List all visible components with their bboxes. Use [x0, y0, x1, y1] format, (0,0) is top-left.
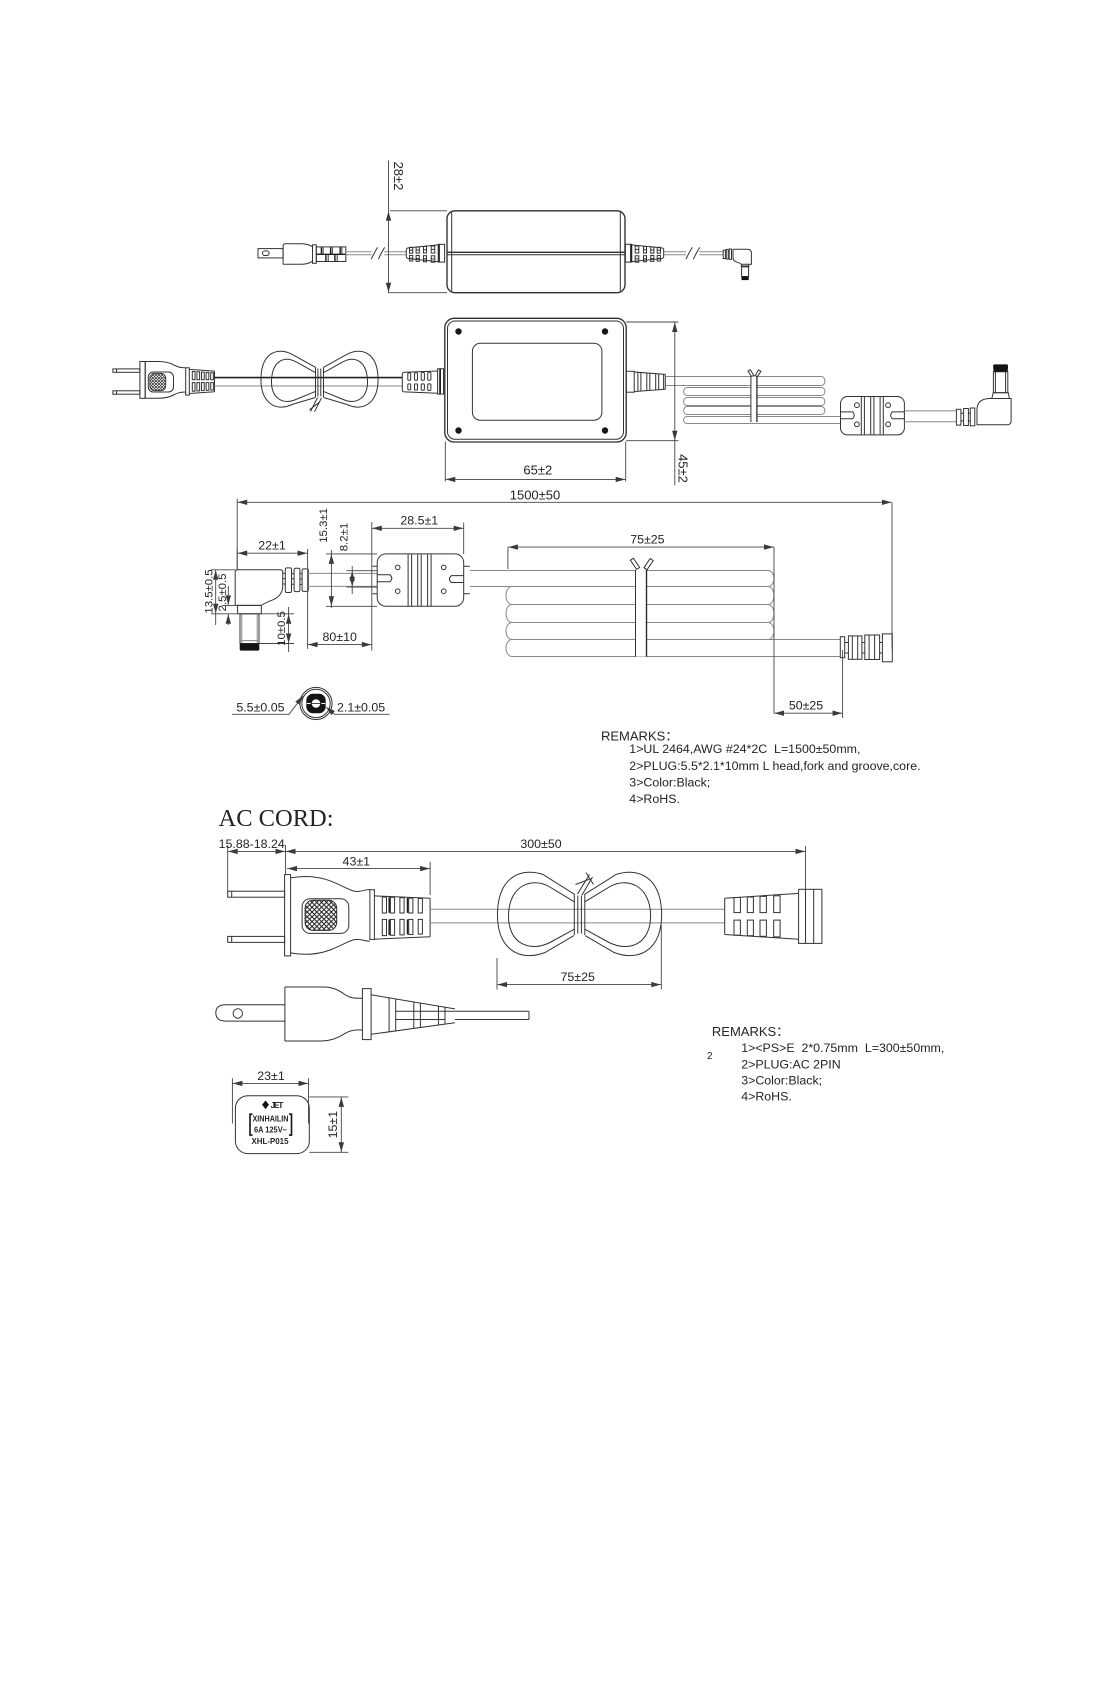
svg-text:50±25: 50±25 [789, 698, 823, 712]
strain relief right of body [626, 371, 665, 392]
ferrite bead detail [373, 554, 470, 606]
dim 80+-10 [308, 522, 372, 651]
svg-text:2.5±0.5: 2.5±0.5 [217, 574, 229, 612]
rating label [235, 1096, 309, 1154]
svg-text:75±25: 75±25 [630, 532, 664, 546]
strain relief into body [402, 369, 443, 394]
svg-text:75±25: 75±25 [561, 970, 595, 984]
svg-text:JET: JET [271, 1100, 285, 1110]
DC plug J1 top view [956, 364, 1011, 425]
LABEL [232, 1069, 348, 1153]
svg-text:15.3±1: 15.3±1 [318, 508, 330, 543]
svg-text:REMARKS：: REMARKS： [712, 1024, 789, 1039]
coil rows [665, 370, 840, 424]
svg-text:80±10: 80±10 [323, 630, 357, 644]
DC plug J1 side view [723, 249, 751, 280]
dim 10+-0.5 [259, 607, 294, 652]
svg-text:XINHAILIN: XINHAILIN [253, 1114, 289, 1124]
dim 23+-1 [232, 1069, 308, 1123]
VIEW3 [203, 488, 892, 718]
svg-text:15.88-18.24: 15.88-18.24 [219, 837, 285, 851]
wire W1b [384, 252, 406, 255]
AC plug P1 side view [258, 244, 346, 265]
AC plug side view below [216, 987, 529, 1041]
coiled bow left [261, 351, 378, 412]
strain relief left [406, 244, 444, 262]
svg-text:1500±50: 1500±50 [510, 488, 561, 503]
DETAIL [232, 687, 390, 719]
wire [215, 377, 403, 379]
ACCORD [216, 805, 822, 1041]
wire W2 [664, 252, 686, 255]
break marks [371, 247, 384, 259]
leader 2.1 [324, 700, 389, 715]
dim 43+-1 [287, 854, 430, 895]
svg-text:10±0.5: 10±0.5 [276, 611, 288, 646]
dim 15.88-18.24 [219, 837, 286, 891]
svg-text:43±1: 43±1 [343, 854, 371, 868]
wire to ferrite [308, 573, 378, 586]
svg-text:AC CORD:: AC CORD: [219, 805, 334, 832]
dim 65+-2 [445, 442, 625, 483]
svg-text:4>RoHS.: 4>RoHS. [629, 792, 680, 806]
svg-text:2>PLUG:AC 2PIN: 2>PLUG:AC 2PIN [741, 1057, 841, 1071]
dim 45+-2 [626, 322, 690, 485]
svg-text:3>Color:Black;: 3>Color:Black; [741, 1073, 822, 1087]
adapter body top view [445, 318, 626, 442]
dim 28+-2 [386, 161, 447, 293]
svg-text:28±2: 28±2 [391, 162, 406, 191]
wire to DC plug [904, 411, 956, 422]
svg-text:22±1: 22±1 [258, 539, 286, 553]
svg-text:23±1: 23±1 [257, 1069, 285, 1083]
dim 15+-1 [309, 1097, 348, 1152]
svg-text:8.2±1: 8.2±1 [339, 523, 351, 551]
svg-text:13.5±0.5: 13.5±0.5 [203, 569, 215, 613]
adapter body side view [447, 211, 625, 293]
dim 28.5+-1 [372, 513, 464, 554]
DC plug J1 detail view [235, 568, 308, 651]
wire W2b [699, 252, 723, 255]
dim 75+-25 AC [497, 925, 661, 990]
strain relief right [625, 244, 663, 262]
AC connector [725, 889, 822, 943]
svg-text:6A 125V~: 6A 125V~ [254, 1125, 287, 1135]
dim 2.5+-0.5 [217, 574, 238, 625]
dim 8.2+-1 [339, 523, 377, 594]
svg-text:300±50: 300±50 [520, 837, 561, 851]
dim 13.5+-0.5 [203, 569, 237, 625]
bow coil AC cord [497, 872, 661, 955]
plug tip section detail [300, 687, 332, 719]
REMARKS1 [601, 729, 921, 806]
svg-text:2: 2 [707, 1051, 713, 1062]
svg-text:65±2: 65±2 [523, 462, 552, 477]
dim 1500+-50 [237, 488, 892, 649]
ferrite bead top [841, 397, 905, 435]
svg-text:XHL-P015: XHL-P015 [252, 1136, 289, 1146]
svg-text:5.5±0.05: 5.5±0.05 [236, 700, 284, 714]
leader 5.5 [232, 694, 305, 714]
svg-text:1><PS>E 2*0.75mm L=300±50mm,: 1><PS>E 2*0.75mm L=300±50mm, [741, 1041, 944, 1055]
svg-text:28.5±1: 28.5±1 [400, 513, 438, 527]
dim 22+-1 [237, 539, 307, 574]
svg-text:2.1±0.05: 2.1±0.05 [337, 700, 385, 714]
break marks [686, 247, 700, 259]
dim 75+-25 [508, 532, 774, 713]
svg-text:1>UL 2464,AWG #24*2C L=1500±5: 1>UL 2464,AWG #24*2C L=1500±50mm, [629, 742, 860, 756]
svg-text:15±1: 15±1 [326, 1111, 340, 1139]
dim 50+-25 [774, 650, 843, 718]
REMARKS2 [707, 1024, 944, 1104]
svg-text:2>PLUG:5.5*2.1*10mm L head,for: 2>PLUG:5.5*2.1*10mm L head,fork and groo… [629, 759, 920, 773]
VIEW2 [113, 318, 1011, 485]
wire through bow [430, 909, 725, 923]
svg-text:4>RoHS.: 4>RoHS. [741, 1090, 792, 1104]
dim 15.3+-1 [318, 508, 377, 608]
AC plug front view [228, 875, 430, 956]
strain relief right detail [840, 634, 892, 662]
AC plug P1 top view [113, 362, 215, 399]
VIEW1 [258, 161, 751, 293]
wire W1 [345, 252, 371, 255]
dim 300+-50 [286, 837, 806, 889]
svg-text:3>Color:Black;: 3>Color:Black; [629, 776, 710, 790]
svg-text:45±2: 45±2 [675, 454, 690, 483]
coil rows detail [470, 558, 841, 656]
